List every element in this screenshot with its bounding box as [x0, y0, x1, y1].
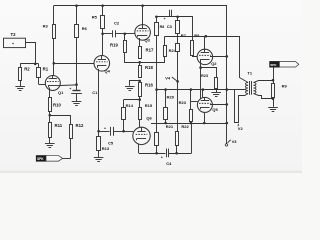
- node V2: [0, 0, 1, 1]
- svg-text:R18: R18: [145, 65, 153, 70]
- triode Q4: [94, 56, 110, 72]
- label R11: [55, 123, 63, 128]
- svg-text:R16: R16: [145, 83, 153, 88]
- resistor R24: [140, 36, 167, 62]
- capacitor C4: [161, 149, 169, 160]
- svg-text:+: +: [104, 127, 106, 131]
- label R15: [145, 103, 153, 108]
- resistor R15: [139, 100, 142, 128]
- resistor R8: [176, 17, 180, 43]
- node R5-C2: [101, 33, 104, 36]
- capacitor C1: [69, 85, 81, 102]
- triode Q3: [135, 25, 151, 41]
- wire Q2 screen right: [210, 56, 227, 58]
- wire secondary bottom lead: [254, 94, 274, 99]
- wire T2 output: [26, 43, 36, 64]
- label R21: [166, 124, 174, 129]
- node R20 bottom: [164, 122, 167, 125]
- resistor R3: [53, 6, 56, 76]
- ground under C1: [72, 102, 82, 106]
- resistor R18: [139, 62, 142, 77]
- node screen upper: [226, 55, 229, 58]
- resistor R20: [164, 90, 168, 123]
- wire Q4 cathode down: [98, 69, 100, 131]
- pentode Q2: [197, 49, 212, 64]
- node rail-R6: [75, 4, 78, 7]
- wire C2 to Q3 grid: [125, 33, 135, 35]
- wire Q3 plate up: [142, 6, 144, 25]
- label T2: [11, 32, 17, 37]
- label R9b: [194, 33, 200, 38]
- label R23u: [201, 74, 208, 78]
- node R10 bottom: [49, 114, 52, 117]
- svg-text:C2: C2: [114, 21, 120, 26]
- svg-text:Q4: Q4: [105, 69, 111, 74]
- label Q2: [211, 61, 217, 66]
- node Q1 plate: [53, 62, 56, 65]
- triode Q1: [45, 76, 60, 91]
- label R10: [53, 103, 61, 108]
- svg-text:SPK: SPK: [37, 157, 44, 161]
- label C3: [160, 24, 173, 29]
- label R20g: [0, 0, 1, 1]
- wire B centre tap: [157, 89, 247, 91]
- wire A plate drive: [165, 37, 248, 83]
- node rail-R5: [101, 4, 104, 7]
- resistor R23: [190, 90, 193, 123]
- resistor R19: [124, 34, 140, 63]
- label V4: [165, 76, 176, 81]
- svg-text:V2: V2: [238, 126, 244, 131]
- wire R5 node down to Q4 plate: [101, 34, 104, 57]
- label Q5: [212, 107, 218, 112]
- pentode Q5: [197, 97, 212, 112]
- svg-text:R23: R23: [179, 100, 187, 105]
- wire Q5 plate up: [202, 90, 204, 98]
- wire primary bottom lead: [235, 90, 249, 123]
- wire R7 column down: [156, 90, 158, 133]
- label V3: [228, 139, 238, 144]
- svg-text:R9: R9: [282, 84, 288, 89]
- transformer T1: [246, 81, 256, 95]
- resistor R23u: [215, 78, 218, 93]
- svg-text:T2: T2: [11, 32, 17, 37]
- wire Q5 grid stub: [191, 101, 198, 103]
- wire Q2 cathode down: [200, 60, 202, 99]
- node R23 top: [190, 88, 193, 91]
- wire Q5 screen right: [210, 104, 227, 106]
- svg-text:R13: R13: [102, 146, 110, 151]
- label R19: [110, 43, 118, 48]
- resistor R1: [37, 64, 46, 85]
- resistor R22: [176, 132, 179, 154]
- node R16 bottom: [138, 98, 141, 101]
- capacitor C2: [103, 30, 125, 37]
- label R1: [43, 66, 49, 71]
- resistor R2: [19, 64, 22, 87]
- node R22 bottom: [175, 152, 178, 155]
- terminal V3: [225, 144, 228, 147]
- node Q4 cathode bottom: [97, 130, 100, 133]
- svg-text:R17: R17: [146, 48, 154, 53]
- svg-text:R21: R21: [166, 124, 174, 129]
- svg-text:V4: V4: [165, 76, 171, 81]
- resistor R20g: [191, 41, 198, 57]
- triode Q6: [133, 127, 150, 144]
- wire C3 node left: [156, 17, 192, 41]
- svg-text:R11: R11: [55, 123, 63, 128]
- label C5: [108, 141, 114, 146]
- label R16: [145, 83, 153, 88]
- resistor R21: [155, 133, 159, 154]
- resistor R12: [63, 115, 73, 158]
- svg-text:R7: R7: [181, 33, 187, 38]
- resistor R25: [176, 44, 180, 82]
- wire C5 node to Q6 grid: [124, 131, 134, 133]
- flag feedback input: [36, 156, 62, 162]
- svg-text:R19: R19: [110, 43, 118, 48]
- node R8 top: [176, 15, 179, 18]
- svg-text:C3: C3: [167, 24, 173, 29]
- resistor R7: [155, 17, 159, 90]
- node Q2 plate: [205, 35, 208, 38]
- wire R14 top link: [124, 99, 140, 101]
- svg-text:R12: R12: [76, 123, 84, 128]
- svg-text:R1: R1: [43, 66, 49, 71]
- node R7 top: [155, 15, 158, 18]
- ground under R23u: [211, 93, 221, 97]
- wire spk up: [273, 67, 275, 80]
- wire V4 column down: [177, 81, 179, 131]
- node spk junction: [272, 79, 275, 82]
- wire Q5 cathode down: [204, 112, 206, 123]
- node R21 bottom: [155, 152, 158, 155]
- ground under R2: [15, 87, 25, 91]
- svg-text:Q1: Q1: [58, 90, 64, 95]
- wire ground branch: [130, 81, 140, 86]
- resistor R17: [139, 47, 142, 59]
- label C2: [114, 21, 120, 26]
- wire Q2 plate up: [204, 36, 206, 49]
- wire Q1 cathode down: [49, 87, 51, 115]
- wire Q6 cathode down: [138, 144, 140, 153]
- label R23: [179, 100, 187, 105]
- node R18 bottom: [138, 80, 141, 83]
- wire Q1 plate to Q4 grid: [54, 63, 94, 65]
- label R20: [167, 94, 175, 99]
- node Q1 cathode: [75, 83, 78, 86]
- capacitor C5: [99, 127, 124, 136]
- svg-text:Q3: Q3: [145, 37, 151, 42]
- ground mid: [125, 87, 135, 91]
- svg-text:R3: R3: [43, 24, 49, 29]
- svg-text:R5: R5: [92, 14, 98, 19]
- node screen lower: [226, 103, 229, 106]
- label R3: [43, 24, 49, 29]
- node C5-R14: [122, 130, 125, 133]
- svg-text:R10: R10: [53, 103, 61, 108]
- resistor R5: [101, 6, 105, 34]
- node V4: [176, 80, 179, 83]
- svg-text:Q6: Q6: [146, 115, 152, 120]
- ground under R13: [94, 158, 104, 162]
- node R20 top: [164, 88, 167, 91]
- svg-text:C4: C4: [166, 161, 172, 166]
- svg-text:+: +: [69, 87, 71, 91]
- resistor R9: [272, 80, 275, 107]
- svg-text:+: +: [12, 42, 14, 46]
- wire Q1 cathode right: [57, 84, 76, 87]
- wire R2-R1 top: [20, 63, 38, 65]
- wire cathode bus bottom: [139, 153, 192, 155]
- wire B+ rail drop right: [226, 6, 228, 144]
- wire B+ top rail: [54, 5, 227, 7]
- node Q2 cathode: [199, 66, 202, 69]
- svg-text:V3: V3: [232, 139, 238, 144]
- capacitor C3: [164, 10, 172, 21]
- svg-text:+: +: [164, 17, 166, 21]
- ground under R9: [268, 108, 278, 112]
- label Q1: [58, 90, 64, 95]
- svg-text:Q2: Q2: [211, 61, 217, 66]
- label R17: [146, 48, 154, 53]
- label Q6: [146, 115, 152, 120]
- ground under R11: [45, 144, 55, 148]
- svg-text:R15: R15: [145, 103, 153, 108]
- label R2: [24, 66, 30, 71]
- resistor R11: [49, 115, 52, 143]
- label R6: [82, 26, 88, 31]
- wire Q3 cathode down: [139, 38, 141, 47]
- svg-text:R14: R14: [126, 103, 134, 108]
- flag SPK out: [270, 62, 299, 67]
- svg-text:C5: C5: [108, 141, 114, 146]
- label R22: [181, 124, 189, 129]
- resistor R16: [139, 81, 142, 100]
- node R7-wireB: [155, 88, 158, 91]
- svg-text:R22: R22: [181, 124, 189, 129]
- node wireB rail: [226, 88, 229, 91]
- label R9: [282, 84, 288, 89]
- label Q3: [145, 37, 151, 42]
- label R18: [145, 65, 153, 70]
- node Q5 cathode: [203, 122, 206, 125]
- label T1: [247, 71, 252, 76]
- node rail-Q3 plate: [141, 4, 144, 7]
- node y123-rail: [226, 122, 229, 125]
- svg-text:R20: R20: [167, 94, 175, 99]
- wire primary top lead: [0, 0, 1, 1]
- label R14: [126, 103, 134, 108]
- label R5: [92, 14, 98, 19]
- label R24: [169, 48, 177, 53]
- label C1: [92, 90, 98, 95]
- svg-text:+: +: [161, 155, 163, 159]
- wire secondary top lead: [254, 81, 274, 83]
- svg-text:SPK: SPK: [270, 63, 277, 67]
- node Q5 plate: [202, 88, 205, 91]
- svg-text:R2: R2: [24, 66, 30, 71]
- resistor R13: [97, 131, 101, 157]
- node R23 bottom: [190, 122, 193, 125]
- svg-text:T1: T1: [247, 71, 252, 76]
- svg-text:C1: C1: [92, 90, 98, 95]
- wire bottom right up: [191, 123, 193, 153]
- resistor R10: [49, 98, 52, 112]
- wire cathode bus y123: [151, 123, 227, 125]
- resistor R6: [75, 6, 79, 85]
- resistor R14: [122, 100, 126, 132]
- connector T2: [4, 38, 26, 47]
- svg-text:Q5: Q5: [212, 107, 218, 112]
- label R12: [76, 123, 84, 128]
- svg-text:R8: R8: [160, 25, 165, 29]
- node R17-R18: [138, 61, 141, 64]
- wire Q2 cathode branch: [201, 68, 217, 78]
- svg-text:R8: R8: [194, 33, 200, 38]
- label V2: [238, 124, 244, 131]
- node input junction: [34, 63, 37, 66]
- label C4: [166, 161, 172, 166]
- label R8: [181, 33, 187, 38]
- wire R10-R12 link: [50, 115, 71, 117]
- label Q4: [105, 69, 111, 74]
- node C2-R19: [124, 33, 127, 36]
- svg-text:R6: R6: [82, 26, 88, 31]
- svg-text:R23: R23: [201, 74, 208, 78]
- label R13: [102, 146, 110, 151]
